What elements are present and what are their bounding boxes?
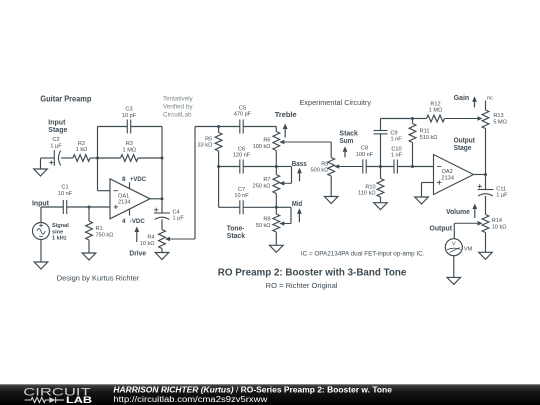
- node E tone stack top: [217, 125, 220, 128]
- capacitor C5: [234, 105, 252, 133]
- wire OA2 output: [474, 174, 486, 176]
- svg-text:C10: C10: [391, 146, 401, 152]
- svg-text:C3: C3: [125, 107, 132, 113]
- wire OA1 output: [150, 198, 162, 200]
- voltmeter VM: [445, 239, 472, 256]
- svg-text:Mid: Mid: [292, 201, 302, 208]
- node H R7 bottom: [275, 206, 278, 209]
- svg-text:R6: R6: [263, 138, 270, 144]
- annotation IC note: [301, 251, 425, 258]
- svg-text:Experimental Circuitry: Experimental Circuitry: [300, 100, 372, 107]
- node C R3 right: [161, 157, 164, 160]
- ground below V1: [34, 262, 48, 269]
- title RO Preamp 2: [218, 267, 407, 279]
- svg-text:Verified by: Verified by: [163, 104, 193, 111]
- resistor R1: [86, 207, 114, 253]
- svg-text:C6: C6: [238, 146, 245, 152]
- ground below R4: [155, 253, 169, 260]
- potentiometer R13 gain: [482, 101, 507, 175]
- svg-text:OA2: OA2: [442, 169, 453, 175]
- resistor R5: [198, 127, 222, 167]
- svg-text:Stack: Stack: [340, 131, 358, 138]
- pin 4 -VDC stub: [122, 209, 145, 225]
- svg-text:LAB: LAB: [66, 395, 92, 405]
- svg-text:C1: C1: [61, 185, 68, 191]
- wire output to C4: [161, 199, 163, 213]
- capacitor C11 polarized: [478, 175, 509, 199]
- node G R6 bottom: [275, 165, 278, 168]
- subtitle RO = Richter Original: [266, 281, 338, 290]
- annotation Mid: [292, 201, 302, 222]
- svg-text:HARRISON RICHTER (Kurtus) / RO: HARRISON RICHTER (Kurtus) / RO-Series Pr…: [113, 386, 392, 395]
- wire R12 to R13 wiper: [445, 116, 483, 121]
- ground below R14: [479, 252, 493, 259]
- wire C11 to R14: [485, 196, 487, 215]
- footer title line: [113, 386, 392, 395]
- svg-text:CircuitLab: CircuitLab: [163, 112, 192, 119]
- potentiometer R14 volume: [454, 215, 506, 233]
- svg-text:1 nF: 1 nF: [391, 153, 403, 159]
- wire V1 to ground: [40, 240, 42, 263]
- svg-text:100 nF: 100 nF: [356, 152, 374, 158]
- svg-text:Tone-: Tone-: [227, 226, 245, 233]
- svg-text:Gain: Gain: [454, 95, 470, 102]
- ground below R9: [324, 197, 338, 204]
- potentiometer R4: [140, 230, 195, 249]
- node K: [411, 117, 414, 120]
- annotation Tentatively Verified by CircuitLab: [163, 96, 193, 119]
- logo CIRCUIT text: [23, 387, 91, 399]
- wire OA2 noninverting to ground: [422, 183, 434, 198]
- svg-text:110 kΩ: 110 kΩ: [358, 191, 375, 197]
- wire R9 to ground: [330, 176, 332, 197]
- annotation Input Stage: [48, 120, 67, 135]
- svg-text:100 kΩ: 100 kΩ: [253, 144, 271, 150]
- svg-text:Output: Output: [454, 138, 476, 145]
- wire C4 to R4: [161, 220, 163, 230]
- potentiometer R8 mid: [256, 207, 291, 245]
- svg-text:1 µF: 1 µF: [173, 216, 185, 222]
- svg-text:1 MΩ: 1 MΩ: [429, 108, 443, 114]
- svg-text:120 nF: 120 nF: [233, 153, 251, 159]
- svg-text:R3: R3: [126, 141, 133, 147]
- svg-text:+VDC: +VDC: [130, 176, 147, 183]
- svg-text:Input: Input: [48, 120, 66, 127]
- svg-text:RO = Richter Original: RO = Richter Original: [266, 281, 338, 290]
- wire C8 to node J: [366, 166, 394, 168]
- svg-text:10 pF: 10 pF: [122, 113, 137, 119]
- svg-text:50 kΩ: 50 kΩ: [256, 223, 271, 229]
- svg-text:C7: C7: [238, 187, 245, 193]
- wire top to C5: [219, 126, 240, 128]
- wire wiper to voltmeter: [453, 223, 455, 238]
- ground below OA2 input: [415, 197, 429, 204]
- svg-text:R13: R13: [493, 113, 503, 119]
- svg-text:Sum: Sum: [340, 138, 354, 145]
- node B inverting input net: [96, 157, 99, 160]
- svg-text:1 kHz: 1 kHz: [52, 236, 67, 242]
- annotation Volume: [446, 204, 477, 219]
- resistor R2: [73, 141, 90, 162]
- svg-text:sine: sine: [52, 229, 63, 235]
- svg-text:10 nF: 10 nF: [58, 191, 73, 197]
- svg-text:VM: VM: [464, 246, 473, 252]
- ground below R10: [374, 203, 388, 210]
- svg-text:R10: R10: [365, 184, 375, 190]
- annotation Input label: [32, 200, 50, 207]
- wire R6 wiper to R9: [330, 142, 332, 158]
- annotation Output Stage: [454, 138, 476, 153]
- wire feedback top left: [98, 126, 128, 128]
- wire R4 wiper to tone stack: [195, 127, 219, 240]
- annotation Treble: [275, 112, 297, 138]
- resistor R10: [358, 167, 384, 203]
- svg-text:Signal: Signal: [52, 223, 69, 229]
- annotation Stack Sum: [340, 131, 358, 158]
- ground below R1: [82, 253, 96, 260]
- wire VM to ground: [453, 256, 455, 278]
- logo LAB text: [66, 395, 92, 405]
- svg-text:Treble: Treble: [275, 112, 297, 119]
- svg-text:C8: C8: [361, 146, 368, 152]
- voltage source V1 signal sine: [33, 223, 70, 242]
- node L OA2 inverting: [411, 165, 414, 168]
- svg-text:470 pF: 470 pF: [234, 112, 252, 118]
- svg-text:Input: Input: [32, 200, 50, 207]
- svg-text:2134: 2134: [442, 175, 454, 181]
- ground below VM: [447, 277, 461, 284]
- ground below R8: [270, 245, 284, 252]
- pin 8 +VDC stub: [122, 176, 146, 189]
- svg-text:http://circuitlab.com/cma2s9zv: http://circuitlab.com/cma2s9zv5rxww: [113, 395, 267, 404]
- svg-text:500 kΩ: 500 kΩ: [311, 168, 329, 174]
- potentiometer R9 stack sum: [311, 158, 363, 177]
- svg-text:Volume: Volume: [446, 209, 470, 216]
- capacitor C10: [391, 146, 403, 173]
- svg-text:Tentatively: Tentatively: [163, 96, 193, 103]
- svg-text:250 kΩ: 250 kΩ: [253, 184, 271, 190]
- op-amp OA1: [110, 179, 150, 219]
- resistor R3: [98, 141, 163, 161]
- wire node F down: [218, 167, 220, 208]
- node A input junction: [88, 206, 91, 209]
- annotation Tone-Stack: [227, 226, 245, 241]
- svg-text:10 kΩ: 10 kΩ: [492, 225, 507, 231]
- node M OA2 output: [484, 173, 487, 176]
- annotation Guitar Preamp: [40, 95, 91, 104]
- svg-text:Stack: Stack: [227, 233, 245, 240]
- capacitor C8: [356, 146, 374, 174]
- capacitor C2 polarized: [49, 137, 62, 166]
- wire feedback left vertical: [97, 127, 99, 191]
- svg-text:R11: R11: [420, 129, 430, 135]
- svg-text:R5: R5: [205, 136, 212, 142]
- svg-text:4: 4: [122, 218, 126, 225]
- svg-text:Output: Output: [430, 226, 453, 233]
- node F R5 bottom: [217, 165, 220, 168]
- svg-text:Bass: Bass: [292, 161, 307, 168]
- potentiometer R6 treble: [253, 132, 331, 167]
- svg-text:33 kΩ: 33 kΩ: [198, 143, 213, 149]
- svg-text:R14: R14: [492, 218, 502, 224]
- wire feedback top right: [131, 127, 162, 159]
- svg-text:OA1: OA1: [118, 193, 129, 199]
- capacitor C6: [219, 146, 277, 173]
- potentiometer R7 bass: [253, 167, 292, 208]
- svg-text:Stage: Stage: [48, 127, 67, 134]
- svg-text:V: V: [452, 242, 456, 248]
- svg-text:R2: R2: [78, 141, 85, 147]
- svg-text:nc: nc: [487, 96, 493, 102]
- wire R4 to ground: [161, 249, 163, 253]
- wire inverting input OA1: [98, 190, 111, 192]
- capacitor C1: [58, 185, 73, 215]
- resistor R11: [409, 119, 437, 167]
- wire C5 to R6 top: [243, 127, 276, 132]
- svg-text:8: 8: [122, 176, 126, 183]
- svg-text:R12: R12: [430, 102, 440, 108]
- svg-text:1 µF: 1 µF: [496, 193, 508, 199]
- svg-text:10 kΩ: 10 kΩ: [140, 241, 155, 247]
- svg-text:R8: R8: [263, 217, 270, 223]
- capacitor C3: [122, 107, 137, 134]
- svg-text:C11: C11: [496, 186, 506, 192]
- annotation Drive: [129, 227, 146, 258]
- wire R14 to ground: [485, 233, 487, 253]
- footer bar: [0, 384, 540, 405]
- capacitor C4 polarized: [154, 208, 184, 222]
- ground below C2: [34, 169, 48, 176]
- svg-text:Drive: Drive: [129, 250, 146, 257]
- wire C10 to node L: [397, 166, 433, 168]
- svg-text:IC = OPA2134PA dual FET-input: IC = OPA2134PA dual FET-input op-amp IC.: [301, 251, 425, 258]
- svg-text:C2: C2: [52, 137, 59, 143]
- svg-text:R9: R9: [321, 161, 328, 167]
- annotation Output: [430, 226, 453, 233]
- svg-text:Guitar Preamp: Guitar Preamp: [40, 95, 91, 104]
- svg-text:1 kΩ: 1 kΩ: [76, 147, 88, 153]
- svg-text:C5: C5: [239, 105, 246, 111]
- capacitor C9: [374, 119, 403, 167]
- node D OA1 output: [161, 197, 164, 200]
- footer url line: [113, 395, 267, 404]
- svg-text:RO Preamp 2: Booster with 3-Ba: RO Preamp 2: Booster with 3-Band Tone: [218, 267, 407, 279]
- svg-text:Design by Kurtus Richter: Design by Kurtus Richter: [57, 274, 140, 283]
- wire R2 to node B: [90, 157, 98, 159]
- node J: [379, 165, 382, 168]
- wire C1 to node A: [67, 206, 110, 208]
- annotation Experimental Circuitry: [300, 100, 372, 107]
- svg-text:C4: C4: [173, 209, 180, 215]
- wire C9 top to node K: [381, 118, 413, 120]
- svg-text:5 MΩ: 5 MΩ: [493, 120, 507, 126]
- svg-text:-VDC: -VDC: [130, 218, 145, 225]
- svg-text:Stage: Stage: [454, 145, 472, 152]
- svg-text:10 nF: 10 nF: [234, 193, 249, 199]
- svg-text:1 nF: 1 nF: [391, 137, 403, 143]
- logo schematic squiggle: [25, 397, 65, 403]
- annotation nc: [487, 96, 493, 102]
- wire C2 to R2: [61, 157, 73, 159]
- svg-text:2134: 2134: [118, 200, 130, 206]
- annotation Design by Kurtus Richter: [57, 274, 140, 283]
- svg-text:510 kΩ: 510 kΩ: [420, 135, 438, 141]
- wire input to C1: [41, 207, 63, 223]
- op-amp OA2: [434, 155, 474, 195]
- resistor R12: [413, 102, 445, 122]
- svg-text:1 MΩ: 1 MΩ: [123, 148, 137, 154]
- wire ground to C2: [41, 158, 55, 169]
- svg-text:R7: R7: [263, 177, 270, 183]
- wire node C down to output node: [161, 158, 163, 199]
- svg-text:C9: C9: [391, 130, 398, 136]
- svg-text:1 µF: 1 µF: [50, 143, 62, 149]
- svg-text:750 kΩ: 750 kΩ: [96, 232, 114, 238]
- annotation Bass: [292, 161, 307, 181]
- capacitor C7: [219, 187, 277, 215]
- svg-text:R4: R4: [147, 235, 154, 241]
- annotation Gain: [454, 95, 477, 107]
- svg-text:R1: R1: [96, 226, 103, 232]
